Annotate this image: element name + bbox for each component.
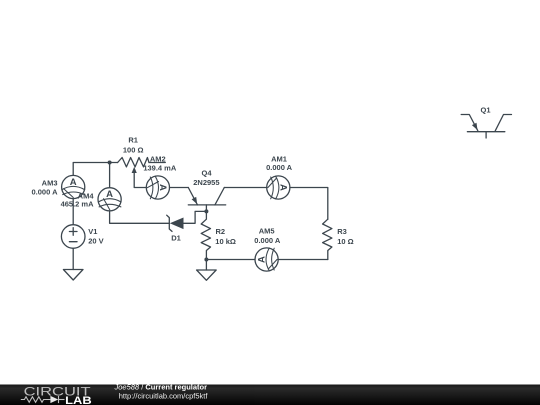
wire AM5 to ground node xyxy=(206,259,255,261)
svg-text:0.000 A: 0.000 A xyxy=(32,188,59,197)
wire top rail xyxy=(73,163,117,176)
wire AM1 to R3 xyxy=(290,188,328,220)
svg-text:0.000 A: 0.000 A xyxy=(266,163,293,172)
wire R2 to ground xyxy=(205,260,207,271)
wire D1 to base node xyxy=(184,211,207,223)
svg-text:V1: V1 xyxy=(88,227,97,236)
label AM1 xyxy=(266,154,293,172)
svg-text:139.4 mA: 139.4 mA xyxy=(143,163,177,172)
label Q4 xyxy=(193,169,219,187)
wire V1 to ground xyxy=(72,248,74,269)
svg-text:Q4: Q4 xyxy=(201,169,212,178)
ammeter AM3 xyxy=(62,175,85,198)
label AM4 xyxy=(61,192,95,209)
svg-text:10 Ω: 10 Ω xyxy=(337,237,353,246)
node R2 bottom junction xyxy=(204,258,208,262)
wire AM2 to Q4 emitter xyxy=(170,187,189,189)
label D1 xyxy=(171,234,181,243)
label AM2 xyxy=(143,154,177,172)
resistor R1 xyxy=(118,158,149,167)
ammeter AM1 xyxy=(267,176,290,199)
svg-text:http://circuitlab.com/cpf5ktf: http://circuitlab.com/cpf5ktf xyxy=(119,391,209,400)
wire R1 wiper xyxy=(132,167,147,188)
svg-text:LAB: LAB xyxy=(65,395,92,405)
svg-text:0.000 A: 0.000 A xyxy=(254,236,281,245)
svg-text:Joe588 / Current regulator: Joe588 / Current regulator xyxy=(114,383,208,392)
svg-text:AM5: AM5 xyxy=(259,227,275,236)
transistor Q4 xyxy=(188,188,225,212)
footer bar xyxy=(0,383,540,405)
label R1 xyxy=(123,136,144,155)
ground (V1) xyxy=(63,270,83,281)
svg-text:AM3: AM3 xyxy=(42,178,58,187)
svg-text:10 kΩ: 10 kΩ xyxy=(215,237,236,246)
label R2 xyxy=(215,227,236,246)
resistor R3 xyxy=(323,219,332,259)
wire AM3 to V1 xyxy=(72,199,74,225)
svg-text:R3: R3 xyxy=(337,227,347,236)
wire AM4 top riser xyxy=(109,163,111,188)
svg-text:2N2955: 2N2955 xyxy=(193,178,219,187)
node Q4 base junction xyxy=(204,209,208,213)
ammeter AM2 xyxy=(146,176,169,199)
svg-text:R1: R1 xyxy=(128,136,138,145)
svg-text:R2: R2 xyxy=(216,227,226,236)
svg-text:20 V: 20 V xyxy=(88,236,103,245)
label Q1 xyxy=(480,105,490,114)
voltage source V1 xyxy=(61,225,85,249)
wire AM4 to D1 xyxy=(110,211,170,223)
logo resistor-diode line xyxy=(21,396,65,403)
label R3 xyxy=(337,227,353,246)
svg-text:AM2: AM2 xyxy=(150,154,166,163)
zener diode D1 xyxy=(167,215,184,231)
svg-text:465.2 mA: 465.2 mA xyxy=(61,200,95,209)
wire R1 right lead xyxy=(149,162,165,164)
label AM5 xyxy=(254,227,281,245)
wire Q4 collector to AM1 xyxy=(224,187,266,189)
svg-text:Q1: Q1 xyxy=(480,105,490,114)
node top-rail junction xyxy=(108,161,112,165)
label AM3 xyxy=(32,178,59,196)
svg-text:100 Ω: 100 Ω xyxy=(123,145,144,154)
label V1 xyxy=(88,227,103,245)
ammeter AM4 xyxy=(98,188,121,211)
svg-text:D1: D1 xyxy=(171,234,181,243)
ammeter AM5 xyxy=(255,248,278,271)
ground (R2) xyxy=(197,270,217,280)
wire R3 to AM5 xyxy=(278,259,328,261)
transistor Q1 xyxy=(461,115,511,139)
resistor R2 xyxy=(201,211,210,259)
